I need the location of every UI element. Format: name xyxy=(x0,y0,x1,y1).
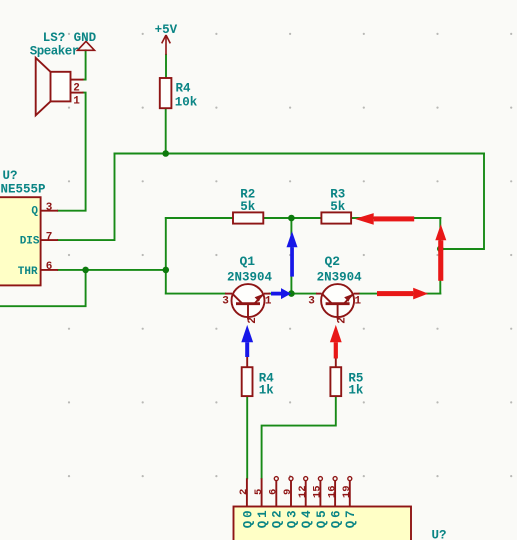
wire: right vertical drop from top rail xyxy=(440,154,484,250)
svg-text:1k: 1k xyxy=(348,384,364,398)
wire: THR pin 6 horizontal xyxy=(58,269,166,271)
svg-text:Q3: Q3 xyxy=(285,508,299,529)
red annotation arrow up into Q2 base xyxy=(330,325,342,359)
wire: left vertical linking R2 row and Q1 row xyxy=(165,218,167,294)
wire: R2 to R3 segment with junction xyxy=(263,217,321,219)
svg-text:Q: Q xyxy=(31,206,38,218)
resistor R5 1k xyxy=(330,359,341,397)
svg-text:2N3904: 2N3904 xyxy=(227,270,273,284)
wire: GND symbol to speaker pin 2 xyxy=(84,50,86,79)
wire: DIS pin 7 branch xyxy=(58,154,115,241)
red annotation arrow right along Q2 emitter wire xyxy=(377,288,428,300)
wire: THR branch down and out left edge xyxy=(0,270,86,306)
svg-text:Q6: Q6 xyxy=(330,508,344,529)
junction below R4 10k xyxy=(162,150,169,157)
wire: R4 10k bottom to junction xyxy=(165,108,167,153)
wire: R2 row left segment xyxy=(166,217,233,219)
svg-text:Q2: Q2 xyxy=(271,508,285,529)
svg-text:Q5: Q5 xyxy=(315,508,329,529)
svg-text:Q7: Q7 xyxy=(344,508,358,529)
svg-text:12: 12 xyxy=(297,485,309,498)
blue annotation arrow right into Q1/Q2 junction xyxy=(271,288,291,299)
red annotation arrow up along feedback vertical xyxy=(435,224,446,281)
wire: speaker pin 1 down and left to 555 Q pin 3 xyxy=(58,93,86,211)
svg-text:THR: THR xyxy=(18,266,38,278)
svg-text:9: 9 xyxy=(282,489,294,495)
wire: junction column between R2/R3 and Q1/Q2 xyxy=(290,218,292,294)
svg-text:GND: GND xyxy=(74,31,97,45)
svg-text:16: 16 xyxy=(326,485,338,498)
svg-text:R4: R4 xyxy=(176,82,192,96)
op-amp timer U? NE555P xyxy=(0,197,58,285)
svg-text:2N3904: 2N3904 xyxy=(317,270,363,284)
svg-text:DIS: DIS xyxy=(20,236,40,248)
wire: Q1 row left segment xyxy=(166,293,225,295)
svg-text:Q1: Q1 xyxy=(240,254,256,269)
resistor R3 xyxy=(321,212,351,223)
resistor R2 xyxy=(233,212,263,223)
wire: R4 1k bottom to connector pin Q0 xyxy=(246,396,248,478)
svg-text:5k: 5k xyxy=(330,200,346,214)
wire: top horizontal rail y=153.5 xyxy=(115,153,485,155)
wire: Q1 emitter to Q2 collector xyxy=(270,293,317,295)
blue annotation arrow up into Q1 base xyxy=(241,325,253,357)
svg-text:19: 19 xyxy=(341,485,353,498)
svg-text:10k: 10k xyxy=(175,95,198,109)
wire: R5 1k bottom to connector pin Q1 xyxy=(262,396,336,478)
svg-text:U?: U? xyxy=(3,169,18,183)
connector U? (Q0-Q7) xyxy=(234,477,412,540)
svg-text:Speaker: Speaker xyxy=(30,44,79,58)
blue annotation arrow up into R2/R3 junction xyxy=(287,231,298,276)
svg-text:2: 2 xyxy=(73,83,80,95)
junction dots xyxy=(82,150,443,297)
wire: feedback vertical x=440.3 xyxy=(439,218,441,294)
svg-text:6: 6 xyxy=(268,489,280,495)
svg-text:NE555P: NE555P xyxy=(1,183,46,197)
junction between R2 and R3 xyxy=(288,215,295,222)
wire: Q2 emitter to feedback vertical xyxy=(360,293,441,295)
svg-text:Q4: Q4 xyxy=(300,508,314,529)
svg-text:1: 1 xyxy=(73,96,80,108)
svg-text:5: 5 xyxy=(253,489,265,495)
resistor R4 1k xyxy=(242,357,253,396)
junction THR meets left vertical xyxy=(163,267,170,274)
junction on feedback vertical xyxy=(437,246,444,253)
svg-text:3: 3 xyxy=(308,295,315,307)
svg-text:6: 6 xyxy=(46,261,53,273)
wire: +5V to R4 10k top xyxy=(165,55,167,78)
svg-text:2: 2 xyxy=(238,489,250,495)
speaker LS? xyxy=(36,58,84,116)
transistor Q1 xyxy=(225,284,270,319)
ground symbol xyxy=(78,41,95,50)
svg-text:3: 3 xyxy=(222,295,229,307)
svg-text:Q0: Q0 xyxy=(241,508,255,529)
svg-text:Q1: Q1 xyxy=(256,508,270,529)
junction on THR wire at x=85.6 xyxy=(82,267,89,274)
svg-text:+5V: +5V xyxy=(155,23,178,37)
transistor Q2 xyxy=(316,284,360,319)
red annotation arrow left into R3 xyxy=(355,213,414,225)
svg-text:1: 1 xyxy=(265,295,272,307)
power +5V symbol xyxy=(162,35,171,55)
svg-text:15: 15 xyxy=(312,485,324,498)
svg-text:Q2: Q2 xyxy=(325,254,341,269)
svg-text:2: 2 xyxy=(247,317,259,324)
svg-text:1k: 1k xyxy=(259,384,275,398)
svg-text:5k: 5k xyxy=(240,200,256,214)
wire: R3 right to feedback corner xyxy=(351,217,440,219)
resistor R4 10k xyxy=(160,78,172,108)
svg-text:1: 1 xyxy=(354,295,361,307)
svg-text:2: 2 xyxy=(336,317,348,324)
svg-text:7: 7 xyxy=(46,231,53,243)
junction between Q1 and Q2 xyxy=(288,290,295,297)
svg-text:3: 3 xyxy=(46,202,53,214)
svg-text:U?: U? xyxy=(432,529,447,540)
svg-text:LS?: LS? xyxy=(43,31,66,45)
